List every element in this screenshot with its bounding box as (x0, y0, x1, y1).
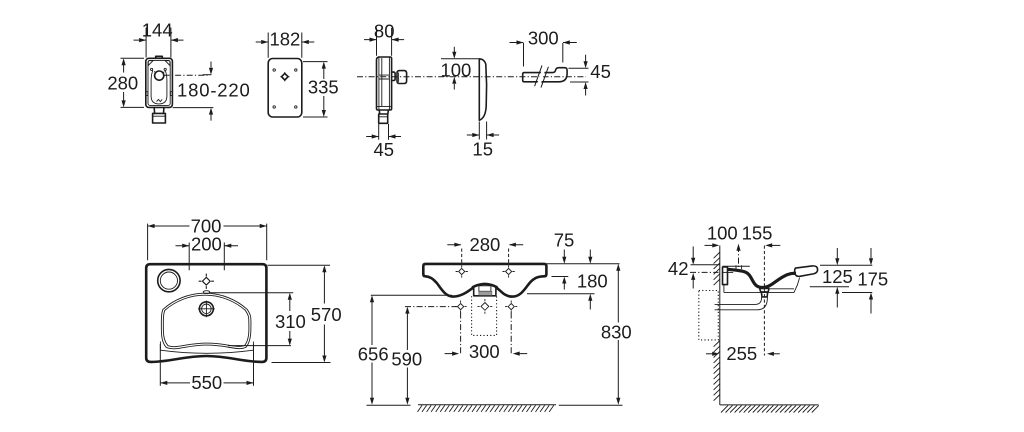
centreline figs 3-5 (357, 76, 586, 78)
wall hatching upper (714, 252, 720, 285)
faucet hole inner (160, 272, 177, 289)
flush bend pipe (523, 68, 567, 82)
corner wedge top-left (148, 61, 153, 66)
svg-text:300: 300 (469, 341, 500, 362)
svg-text:335: 335 (308, 77, 339, 98)
overflow slot (203, 291, 210, 294)
dim 335 ticks (303, 62, 328, 117)
fixing bolt (723, 271, 733, 273)
drain sieve shaded (479, 291, 492, 295)
svg-text:155: 155 (742, 223, 773, 244)
dim 182 arrows (256, 41, 315, 43)
outlet flange line (153, 115, 166, 117)
dim 300 extension lines (524, 43, 563, 67)
svg-text:180-220: 180-220 (177, 79, 251, 100)
knob (397, 71, 407, 84)
dim 80 extension lines (377, 28, 392, 56)
plate hole top-right (295, 69, 297, 71)
svg-text:125: 125 (822, 266, 853, 287)
dim 310 line (289, 295, 291, 344)
tap hole ticks (736, 265, 742, 269)
dim 180 down arrow (589, 250, 591, 258)
flush valve circle (155, 71, 164, 80)
dim 155 right arrow (772, 244, 781, 246)
dim 144 arrows (134, 39, 184, 41)
dim 182 extension lines (268, 33, 302, 58)
dim 15 extension lines (479, 122, 486, 140)
bowl inner rim (163, 295, 249, 346)
dim 45 top tick (569, 67, 589, 69)
break slashes (535, 65, 549, 87)
floor hatching (721, 405, 819, 412)
svg-text:550: 550 (191, 372, 222, 393)
dim 125 up arrow (836, 293, 838, 307)
corner wedge top-right (165, 61, 170, 66)
dim 310 bottom ref (228, 345, 291, 347)
svg-text:590: 590 (391, 348, 422, 369)
svg-text:255: 255 (726, 343, 757, 364)
drain axis dashed (763, 246, 765, 356)
dim 45 arrows (585, 55, 587, 96)
svg-text:830: 830 (601, 321, 632, 342)
dim 125 down arrow (836, 248, 838, 258)
svg-text:656: 656 (358, 344, 389, 365)
fixing axis left dashdot (460, 313, 462, 355)
dim 180 bottom ref (527, 293, 595, 295)
svg-text:75: 75 (554, 229, 575, 250)
dim 200 arrows (176, 245, 239, 247)
dim 180-220 top arrow (210, 62, 212, 68)
tap hole left (456, 265, 468, 277)
dim 280 line (123, 60, 125, 106)
apron right side (252, 342, 254, 351)
dim 280 arrows (447, 244, 523, 246)
svg-text:100: 100 (440, 59, 471, 80)
svg-text:45: 45 (374, 139, 395, 160)
dim 200 extension lines (189, 243, 224, 271)
dim 700 line (148, 225, 266, 227)
plate outline (268, 59, 302, 118)
overflow window (479, 286, 491, 292)
drain inner (202, 304, 212, 314)
basin plan outline (146, 264, 266, 362)
drain cross (198, 301, 215, 318)
basin top ref line (547, 263, 620, 265)
dim 300 arrows (510, 42, 577, 44)
centreline fig1 (164, 74, 208, 76)
dim 75 up arrow (563, 283, 565, 289)
apron curve (160, 350, 253, 353)
inner tank bottle (151, 71, 167, 104)
dim 570 bottom ref (272, 362, 331, 364)
dim 180-220 top tick (203, 74, 212, 76)
screw hole right (164, 68, 166, 70)
dim 42 top ref (691, 264, 720, 266)
svg-text:45: 45 (590, 61, 611, 82)
svg-text:180: 180 (577, 271, 608, 292)
outlet neck (154, 108, 164, 114)
outlet flange side (379, 116, 388, 118)
dim 280 extension ticks (121, 58, 145, 107)
dim 590 top ref dashdot (405, 306, 459, 308)
dim 125 bottom ref (810, 286, 849, 288)
dim 100 bottom arrow (453, 84, 455, 90)
svg-text:280: 280 (107, 72, 138, 93)
waste body (761, 292, 767, 297)
dim 180-220 bottom line (173, 107, 214, 109)
cistern side body (377, 57, 392, 110)
tap hole symbol (199, 274, 214, 289)
dim 180 up arrow (589, 301, 591, 310)
apron left side (159, 342, 161, 351)
plate hole bottom-right (295, 106, 297, 108)
dim 175 up arrow (870, 299, 872, 313)
dim 42 down arrow (692, 247, 694, 259)
floor line right (559, 404, 623, 406)
dim 700 extension lines (148, 224, 267, 261)
svg-text:175: 175 (857, 269, 888, 290)
floor line (720, 404, 819, 406)
dim 175 bottom ref (842, 292, 872, 294)
dim 180-220 bottom arrow (210, 115, 212, 121)
drain centre symbol (478, 299, 493, 314)
dim 144 extension lines (146, 28, 171, 58)
dim 100 top arrow (453, 47, 455, 52)
cistern top tab (156, 56, 163, 58)
shroud bottom (724, 278, 800, 293)
dim 255 left arrow (706, 353, 713, 355)
body inner lines (377, 57, 392, 110)
svg-text:310: 310 (275, 311, 306, 332)
svg-text:200: 200 (191, 234, 222, 255)
dim 570 line (323, 268, 325, 361)
plate hole top-left (273, 69, 275, 71)
wall face (719, 246, 721, 405)
dim 80 arrows (364, 39, 404, 41)
concealed cistern dotted (699, 291, 719, 340)
dim 280 extension dashes (462, 249, 509, 264)
plate side profile (479, 59, 486, 121)
svg-text:280: 280 (469, 234, 500, 255)
basin section body (727, 269, 796, 287)
dim 656 line (371, 298, 373, 402)
dim 15 arrows (467, 134, 499, 136)
shroud left edge (723, 284, 725, 292)
deck top (723, 265, 750, 267)
dim 100 top tick (441, 58, 479, 60)
dim 830 line (617, 267, 619, 403)
knob inner line (398, 73, 400, 83)
trap pipe (715, 297, 768, 310)
shroud upper line (770, 288, 794, 290)
dim 570 top ref (268, 264, 331, 266)
knob stem (392, 72, 396, 80)
break gap (536, 66, 546, 89)
dim 45 bottom tick (570, 81, 589, 83)
drain outer (199, 302, 213, 316)
floor hatching (418, 405, 554, 412)
plate hole bottom-left (273, 106, 275, 108)
cistern body outline (146, 58, 173, 107)
spindle flower (282, 73, 289, 80)
dim 42 up arrow (692, 280, 694, 289)
wall hatching lower (714, 341, 720, 401)
dim 100 wall arrow (705, 244, 713, 246)
cistern inner panel (148, 60, 170, 105)
bowl outer rim (161, 293, 251, 349)
dim 300 arrows (445, 353, 528, 355)
drain recess (474, 287, 496, 296)
dim 45 arrows (366, 136, 401, 138)
side notch left (146, 92, 148, 96)
dim 590 line (406, 309, 408, 402)
fixing axis right dashdot (510, 313, 512, 355)
dim 75 bottom tick (552, 276, 569, 278)
dim 550 extension lines (160, 344, 253, 386)
fixing hole right (505, 301, 517, 313)
mounting bracket (723, 267, 728, 285)
valve notch (154, 71, 164, 72)
faucet hole outer (158, 269, 180, 291)
front rim section loop (795, 266, 818, 277)
waste flange (760, 288, 769, 292)
floor hatched line (418, 404, 556, 406)
svg-text:570: 570 (311, 304, 342, 325)
dim 335 line (323, 64, 325, 116)
fixing axis dashdot (690, 271, 719, 273)
svg-text:144: 144 (142, 20, 173, 41)
svg-text:100: 100 (707, 223, 738, 244)
dim 255 right arrow (773, 353, 780, 355)
outlet neck side (379, 110, 388, 114)
dim 45 extension lines (379, 124, 389, 140)
dim 175 down arrow (870, 248, 872, 258)
outlet pipe (153, 113, 166, 123)
trap dotted outline (472, 296, 497, 335)
floor line left (367, 404, 411, 406)
side notch right (170, 92, 172, 96)
tap axis up arrowhead (736, 244, 740, 251)
screw hole left (151, 68, 153, 70)
outlet pipe side (379, 114, 388, 123)
basin front outline (423, 264, 546, 297)
tank squiggle (157, 99, 163, 101)
svg-text:15: 15 (472, 139, 493, 160)
dim 550 line (161, 382, 253, 384)
fixing hole left (455, 301, 467, 313)
rim top ref (820, 264, 872, 266)
svg-text:80: 80 (374, 20, 395, 41)
tap axis dashdot (738, 246, 740, 270)
dim 75 down arrow (563, 250, 565, 258)
svg-text:182: 182 (269, 28, 300, 49)
tap hole right (503, 265, 515, 277)
dim 310 top ref (210, 292, 293, 294)
svg-text:300: 300 (528, 27, 559, 48)
dim 656 top ref (371, 294, 452, 296)
svg-text:42: 42 (668, 258, 689, 279)
